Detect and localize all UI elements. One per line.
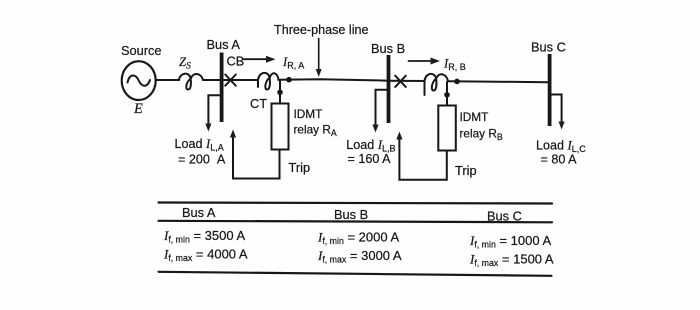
- wire CT to relay B: [446, 82, 448, 106]
- svg-text:Bus A: Bus A: [182, 205, 216, 220]
- trip circuit B arrowhead: [396, 132, 402, 140]
- svg-text:IDMT: IDMT: [460, 110, 489, 124]
- junction dot relay A lead: [277, 90, 283, 96]
- table header rule: [159, 221, 553, 223]
- source G: [122, 61, 156, 100]
- wire bus A to CT A: [224, 79, 259, 81]
- svg-text:If, max = 3000 A: If, max = 3000 A: [317, 248, 402, 265]
- load C arrowhead: [559, 122, 565, 130]
- svg-text:Three-phase line: Three-phase line: [274, 23, 369, 37]
- svg-text:Trip: Trip: [289, 160, 311, 175]
- load C tap wire: [551, 95, 562, 125]
- svg-text:Load IL,A: Load IL,A: [175, 137, 224, 153]
- junction dot relay B lead: [444, 92, 450, 98]
- wire bus B to CT B: [390, 80, 424, 82]
- junction dot on line B: [454, 79, 460, 85]
- svg-text:IDMT: IDMT: [294, 107, 323, 121]
- table bottom rule: [159, 272, 552, 276]
- main line A to B: [279, 79, 387, 80]
- current arrow IRA shaft: [244, 58, 270, 60]
- svg-text:= 80 A: = 80 A: [541, 153, 578, 167]
- svg-text:If, min = 2000 A: If, min = 2000 A: [317, 230, 399, 247]
- current arrow IRB shaft: [409, 60, 435, 62]
- svg-text:If, min = 3500 A: If, min = 3500 A: [163, 228, 245, 245]
- svg-text:Source: Source: [121, 43, 162, 58]
- table top rule: [159, 203, 553, 204]
- svg-text:IR, A: IR, A: [282, 55, 304, 71]
- relay A box: [272, 104, 289, 150]
- svg-text:= 160 A: = 160 A: [348, 152, 392, 166]
- wire Zs to bus A: [203, 79, 220, 81]
- circuit breaker CB A (X): [225, 75, 236, 86]
- bus A bar: [220, 53, 224, 123]
- CT A coil: [258, 73, 279, 90]
- svg-text:Bus C: Bus C: [487, 209, 522, 224]
- svg-text:Bus A: Bus A: [207, 37, 241, 52]
- main line B to C: [448, 81, 548, 82]
- svg-text:If, max = 4000 A: If, max = 4000 A: [163, 247, 248, 264]
- current arrow IRA head: [266, 56, 276, 63]
- svg-text:Trip: Trip: [455, 163, 477, 178]
- wire CT to relay A: [279, 81, 281, 104]
- load B arrowhead: [372, 125, 378, 133]
- svg-text:Bus B: Bus B: [371, 41, 405, 56]
- svg-text:CT: CT: [250, 96, 267, 111]
- trip circuit A arrowhead: [230, 130, 236, 138]
- svg-text:E: E: [133, 101, 143, 117]
- svg-text:= 200 A: = 200 A: [178, 153, 226, 167]
- svg-text:IR, B: IR, B: [443, 57, 466, 73]
- trip circuit A wire: [233, 135, 280, 179]
- svg-text:CB: CB: [227, 54, 245, 69]
- bus B bar: [387, 55, 391, 123]
- relay B box: [438, 106, 456, 151]
- svg-text:ZS: ZS: [179, 55, 191, 72]
- load A arrowhead: [205, 124, 211, 132]
- junction dot on line A: [286, 77, 292, 83]
- wire source to Zs: [156, 79, 179, 81]
- CT B coil: [425, 74, 449, 95]
- svg-text:Bus C: Bus C: [531, 40, 566, 55]
- circuit breaker CB B (X): [395, 76, 406, 87]
- trip circuit B wire: [399, 137, 446, 180]
- load B tap wire: [376, 90, 388, 127]
- svg-text:If, min = 1000 A: If, min = 1000 A: [469, 233, 551, 250]
- svg-text:If, max = 1500 A: If, max = 1500 A: [469, 252, 554, 269]
- svg-text:Bus B: Bus B: [334, 207, 368, 222]
- load A tap wire: [208, 95, 220, 126]
- svg-text:relay RA: relay RA: [294, 123, 337, 139]
- bus C bar: [548, 54, 552, 126]
- current arrow IRB head: [431, 58, 441, 65]
- three-phase line pointer head: [316, 69, 322, 77]
- three-phase line pointer shaft: [318, 39, 320, 72]
- inductor Zs: [179, 74, 203, 90]
- svg-text:relay RB: relay RB: [460, 127, 503, 143]
